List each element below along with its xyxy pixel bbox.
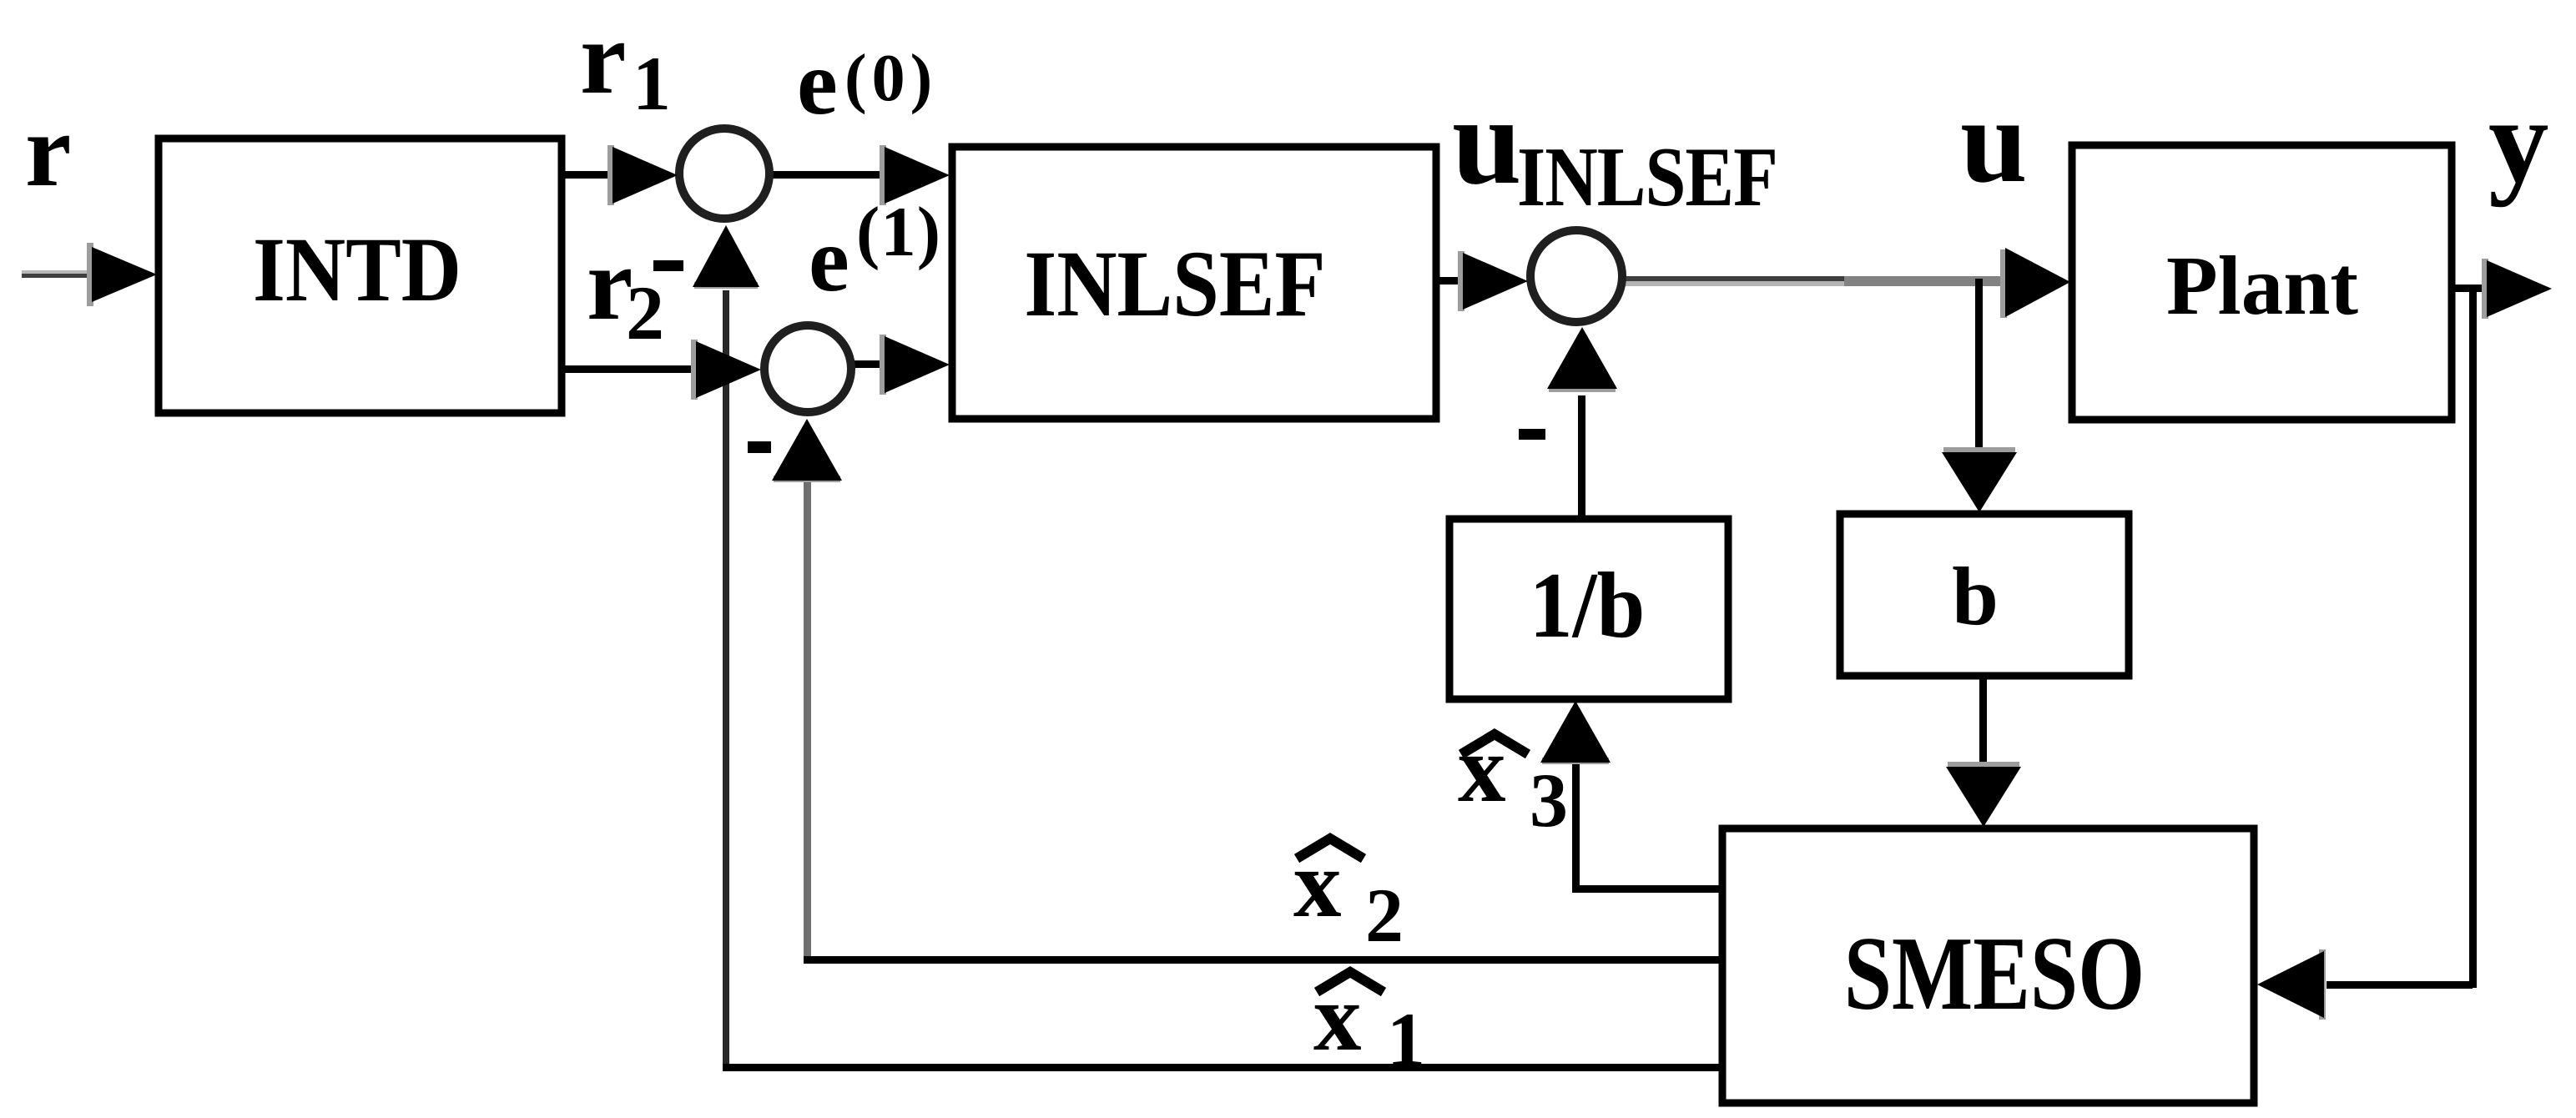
summing junction S1: [679, 128, 769, 219]
arrow u into Plant: [2005, 248, 2070, 317]
summing junction S2: [764, 325, 851, 412]
arrow x2hat up into S2: [772, 419, 842, 481]
svg-text:1: 1: [1387, 997, 1425, 1082]
svg-text:e: e: [797, 32, 838, 133]
label x3hat: [1461, 734, 1528, 754]
svg-text:x: x: [1293, 831, 1342, 937]
arrow r into INTD: [92, 247, 157, 302]
svg-text:(1): (1): [856, 193, 941, 271]
wire S1 to INLSEF: [771, 171, 888, 179]
svg-text:1: 1: [633, 41, 671, 126]
wire INTD to S2: [562, 365, 699, 373]
minus for x2hat input: [748, 441, 771, 453]
summing junction S3: [1530, 230, 1622, 322]
wire u segment 1 two-tone: [1624, 276, 1844, 281]
wire x2hat vertical (line B): [804, 467, 811, 961]
svg-text:r: r: [580, 1, 626, 116]
block b: [1840, 514, 2129, 676]
block INLSEF: [952, 147, 1436, 419]
svg-text:INLSEF: INLSEF: [1517, 130, 1777, 224]
svg-text:x: x: [1458, 716, 1506, 822]
wire u branch down to b: [1975, 279, 1983, 456]
svg-text:3: 3: [1530, 758, 1568, 843]
arrow x3hat up into S3: [1547, 327, 1617, 389]
svg-text:r: r: [25, 93, 71, 209]
wire Plant to y out: [2452, 285, 2488, 292]
wire x1hat vertical (line A): [723, 290, 729, 1071]
block Plant: [2072, 145, 2452, 420]
label x1hat: [1317, 972, 1384, 992]
svg-text:y: y: [2488, 74, 2549, 208]
arrow tail bars: [87, 243, 93, 306]
svg-text:b: b: [1952, 550, 1999, 642]
svg-text:Plant: Plant: [2166, 239, 2358, 332]
wire y feedback horizontal: [2326, 981, 2473, 989]
arrow S2 to INLSEF: [885, 336, 950, 393]
arrow INTD to S1: [612, 147, 678, 204]
arrow b down into SMESO: [1946, 767, 2021, 827]
svg-text:x: x: [1313, 964, 1362, 1070]
svg-text:u: u: [1960, 74, 2028, 208]
wire INTD to S1: [562, 171, 620, 179]
arrow S1 to INLSEF: [885, 147, 950, 204]
wire b to SMESO: [1979, 676, 1987, 769]
wire INLSEF to S3: [1436, 277, 1466, 285]
block INTD: [159, 138, 562, 413]
minus for x1hat input: [653, 260, 683, 271]
wire u segment 2 gray: [1844, 276, 2008, 286]
svg-text:2: 2: [626, 270, 664, 355]
svg-text:2: 2: [1365, 873, 1404, 958]
arrow x1hat up into S1: [693, 225, 759, 287]
svg-text:INLSEF: INLSEF: [1024, 232, 1325, 336]
label x2hat: [1297, 838, 1364, 859]
svg-text:u: u: [1452, 72, 1521, 210]
wire S2 to INLSEF: [853, 360, 888, 368]
arrow INTD to S2: [696, 341, 761, 398]
svg-text:e: e: [809, 209, 849, 310]
block SMESO: [1722, 828, 2254, 1103]
arrow branch down into b: [1942, 452, 2017, 512]
arrow INLSEF to S3: [1463, 253, 1528, 310]
wire x3hat horizontal: [1572, 885, 1727, 893]
wire x3hat vertical: [1572, 751, 1580, 892]
wire 1/b up to S3: [1578, 395, 1585, 519]
block 1/b: [1449, 519, 1728, 699]
arrow y into SMESO: [2257, 951, 2324, 1018]
svg-text:INTD: INTD: [253, 219, 461, 320]
wire r input gray: [22, 270, 97, 274]
wire y feedback vertical: [2469, 285, 2477, 988]
svg-text:1/b: 1/b: [1530, 554, 1646, 657]
svg-text:(0): (0): [844, 42, 937, 115]
arrow Plant to y: [2487, 260, 2552, 317]
arrow x3hat up into 1/b: [1540, 701, 1611, 763]
svg-text:SMESO: SMESO: [1844, 915, 2145, 1031]
minus for x3hat input: [1519, 429, 1545, 440]
wire x1hat horizontal: [723, 1064, 1724, 1071]
wire x2hat horizontal: [804, 956, 1724, 964]
